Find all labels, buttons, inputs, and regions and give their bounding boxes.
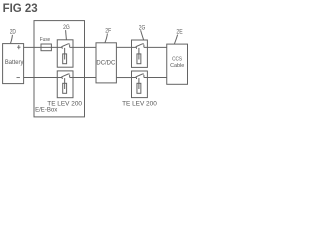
wire K4 to CCS cable (rail2): [147, 77, 166, 79]
figure title FIG 23: [3, 1, 38, 15]
wire K3 to CCS cable (rail1): [147, 46, 166, 48]
coil of K3: [137, 48, 141, 64]
battery plus terminal: [17, 45, 20, 49]
svg-text:Cable: Cable: [170, 63, 185, 69]
contactor K1 (top left relay, TE LEV 200): [57, 40, 73, 67]
leader 2G right: [141, 30, 144, 40]
battery 2D: [3, 44, 24, 84]
leader 2G left: [65, 30, 68, 39]
CCS cable label: [170, 56, 185, 69]
label TE LEV 200 (right pair): [122, 100, 157, 107]
wire K1 to DC/DC (rail1): [73, 46, 96, 48]
DC/DC converter 2F: [96, 43, 116, 83]
wire DC/DC to contactor K3 (rail1): [116, 46, 131, 48]
label 2G (right): [139, 24, 146, 31]
label 2G (left): [63, 24, 70, 31]
svg-text:2G: 2G: [63, 24, 70, 31]
leader 2F: [105, 34, 107, 43]
svg-text:2F: 2F: [105, 27, 111, 34]
svg-text:Fuse: Fuse: [40, 37, 51, 43]
svg-text:DC/DC: DC/DC: [96, 60, 116, 66]
label 2E: [176, 29, 183, 36]
E/E-Box label: [35, 107, 57, 114]
contactor K4 (bottom right relay): [132, 71, 148, 98]
E/E-Box enclosure: [34, 21, 85, 117]
DC/DC label: [96, 60, 116, 66]
wire K2 to DC/DC (rail2): [73, 77, 96, 79]
label TE LEV 200 (left pair): [47, 100, 82, 107]
contactor K2 (bottom left relay): [57, 71, 73, 98]
wire battery- to contactor K2 (rail2): [24, 77, 58, 79]
svg-text:E/E-Box: E/E-Box: [35, 107, 57, 114]
coil of K4: [137, 78, 141, 93]
wire battery+ to fuse (rail1): [24, 46, 41, 48]
svg-text:FIG 23: FIG 23: [3, 1, 38, 15]
battery label Battery: [5, 60, 24, 66]
contactor K3 (top right relay, TE LEV 200): [132, 40, 148, 67]
svg-text:2D: 2D: [10, 29, 16, 36]
wire DC/DC to contactor K4 (rail2): [116, 77, 131, 79]
leader 2E: [174, 35, 177, 44]
svg-text:CCS: CCS: [172, 56, 182, 62]
svg-text:TE LEV 200: TE LEV 200: [122, 100, 157, 107]
leader 2D: [11, 35, 13, 43]
svg-text:Battery: Battery: [5, 60, 24, 66]
wire fuse to contactor K1: [51, 46, 57, 48]
battery minus terminal: [17, 77, 20, 79]
coil of K2: [63, 78, 67, 93]
coil of K1: [63, 48, 67, 64]
svg-text:2G: 2G: [139, 24, 146, 31]
fuse value label: [40, 37, 51, 43]
fuse: [41, 44, 51, 51]
label 2F: [105, 27, 111, 34]
svg-text:TE LEV 200: TE LEV 200: [47, 100, 82, 107]
label 2D: [10, 29, 16, 36]
CCS cable 2E: [167, 44, 188, 84]
